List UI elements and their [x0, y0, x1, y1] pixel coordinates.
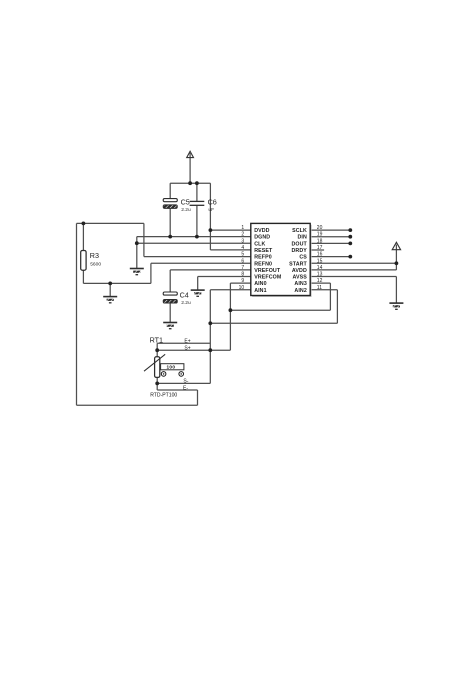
svg-text:AVSS: AVSS: [292, 275, 307, 281]
svg-text:8: 8: [241, 272, 244, 278]
svg-text:12: 12: [317, 278, 323, 284]
svg-text:6: 6: [241, 258, 244, 264]
svg-text:C4: C4: [180, 290, 189, 299]
svg-text:START: START: [289, 261, 307, 267]
svg-text:9: 9: [241, 278, 244, 284]
svg-text:RESET: RESET: [254, 248, 273, 254]
svg-text:RTD-PT100: RTD-PT100: [150, 392, 177, 398]
svg-text:1: 1: [241, 225, 244, 231]
svg-text:10: 10: [239, 285, 245, 291]
svg-text:2.2u: 2.2u: [181, 207, 191, 213]
svg-text:E-: E-: [183, 385, 188, 391]
svg-text:16: 16: [317, 252, 323, 258]
svg-text:AIN1: AIN1: [254, 288, 266, 294]
svg-text:18: 18: [317, 238, 323, 244]
svg-text:17: 17: [317, 245, 323, 251]
svg-text:7: 7: [241, 265, 244, 271]
svg-text:CLK: CLK: [254, 241, 265, 247]
svg-text:REFP0: REFP0: [254, 255, 272, 261]
svg-text:11: 11: [317, 285, 322, 291]
svg-text:13: 13: [317, 272, 323, 278]
svg-text:VREFCOM: VREFCOM: [254, 275, 282, 281]
svg-text:uF: uF: [208, 207, 214, 213]
svg-text:2.2u: 2.2u: [181, 300, 191, 306]
svg-text:5: 5: [241, 252, 244, 258]
svg-text:R3: R3: [90, 251, 99, 260]
svg-text:15: 15: [317, 258, 323, 264]
svg-text:SCLK: SCLK: [292, 228, 307, 234]
svg-text:AIN0: AIN0: [254, 281, 266, 287]
svg-text:19: 19: [317, 232, 323, 238]
svg-text:C6: C6: [208, 197, 217, 206]
svg-text:S-: S-: [183, 379, 188, 385]
svg-text:20: 20: [317, 225, 323, 231]
svg-text:2: 2: [241, 232, 244, 238]
svg-text:CS: CS: [299, 255, 307, 261]
svg-text:DOUT: DOUT: [291, 241, 307, 247]
svg-text:VREFOUT: VREFOUT: [254, 268, 281, 274]
svg-text:DVDD: DVDD: [254, 228, 269, 234]
svg-text:4: 4: [241, 245, 244, 251]
svg-text:C5: C5: [181, 197, 190, 206]
svg-text:14: 14: [317, 265, 323, 271]
svg-text:5600: 5600: [90, 262, 101, 268]
svg-text:DRDY: DRDY: [291, 248, 307, 254]
svg-text:REFN0: REFN0: [254, 261, 272, 267]
svg-text:RT1: RT1: [150, 336, 163, 345]
svg-text:3: 3: [241, 238, 244, 244]
svg-text:AIN3: AIN3: [294, 281, 306, 287]
svg-text:100: 100: [167, 365, 176, 370]
svg-text:E+: E+: [184, 339, 190, 345]
svg-text:DIN: DIN: [297, 235, 306, 241]
svg-text:AVDD: AVDD: [292, 268, 307, 274]
svg-text:AIN2: AIN2: [294, 288, 306, 294]
svg-text:S+: S+: [184, 346, 190, 352]
svg-text:DGND: DGND: [254, 235, 270, 241]
